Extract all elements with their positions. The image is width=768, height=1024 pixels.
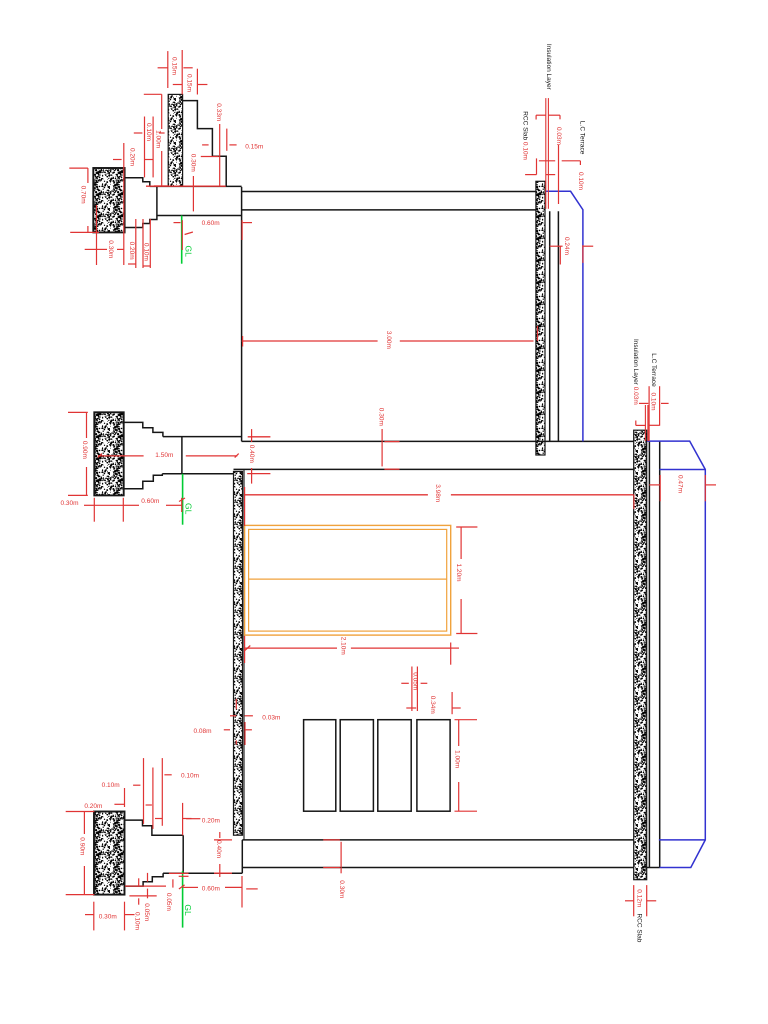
svg-text:0.60m: 0.60m — [202, 886, 220, 893]
svg-text:0.03m: 0.03m — [262, 714, 280, 721]
svg-text:3.00m: 3.00m — [385, 331, 392, 349]
svg-text:0.30m: 0.30m — [99, 914, 117, 921]
svg-text:GL: GL — [183, 904, 193, 916]
svg-text:0.10m: 0.10m — [650, 393, 657, 411]
svg-text:0.20m: 0.20m — [129, 148, 136, 166]
svg-text:0.10m: 0.10m — [145, 123, 152, 141]
svg-text:1.00m: 1.00m — [454, 750, 461, 768]
svg-text:0.24m: 0.24m — [563, 237, 570, 255]
svg-text:0.40m: 0.40m — [248, 445, 255, 463]
svg-text:RCC Slab: RCC Slab — [635, 914, 642, 943]
svg-text:0.47m: 0.47m — [677, 475, 684, 493]
svg-text:0.20m: 0.20m — [84, 803, 102, 810]
svg-text:0.05m: 0.05m — [165, 893, 172, 911]
svg-text:1.00m: 1.00m — [154, 130, 161, 148]
svg-text:0.30m: 0.30m — [190, 154, 197, 172]
svg-text:0.40m: 0.40m — [215, 840, 222, 858]
svg-text:0.34m: 0.34m — [429, 696, 436, 714]
svg-text:0.30m: 0.30m — [61, 500, 79, 507]
svg-text:0.30m: 0.30m — [338, 880, 345, 898]
svg-text:0.08m: 0.08m — [194, 728, 212, 735]
svg-text:0.90m: 0.90m — [81, 441, 88, 459]
svg-text:L.C Terrace: L.C Terrace — [650, 353, 657, 387]
svg-text:0.60m: 0.60m — [141, 498, 159, 505]
svg-text:0.60m: 0.60m — [202, 220, 220, 227]
svg-text:1.20m: 1.20m — [455, 564, 462, 582]
svg-text:GL: GL — [183, 503, 193, 515]
svg-text:Insulation Layer 0.03m: Insulation Layer 0.03m — [632, 339, 639, 405]
svg-text:0.30m: 0.30m — [107, 240, 114, 258]
svg-text:0.70m: 0.70m — [79, 186, 86, 204]
svg-text:0.03m: 0.03m — [555, 127, 562, 145]
svg-text:L.C Terrace: L.C Terrace — [579, 121, 586, 155]
svg-text:0.15m: 0.15m — [171, 57, 178, 75]
svg-text:0.30m: 0.30m — [377, 408, 384, 426]
svg-text:1.50m: 1.50m — [155, 452, 173, 459]
svg-text:0.15m: 0.15m — [185, 74, 192, 92]
svg-text:0.05m: 0.05m — [143, 903, 150, 921]
svg-text:0.12m: 0.12m — [635, 889, 642, 907]
svg-text:0.90m: 0.90m — [79, 837, 86, 855]
svg-text:3.98m: 3.98m — [434, 484, 441, 502]
svg-text:0.05m: 0.05m — [411, 672, 418, 690]
svg-text:0.33m: 0.33m — [215, 103, 222, 121]
svg-text:0.10m: 0.10m — [577, 172, 584, 190]
svg-text:0.10m: 0.10m — [102, 782, 120, 789]
svg-text:Insulation Layer: Insulation Layer — [545, 44, 552, 91]
svg-text:RCC Slab 0.10m: RCC Slab 0.10m — [522, 111, 529, 160]
svg-text:2.10m: 2.10m — [340, 637, 347, 655]
svg-text:0.20m: 0.20m — [128, 242, 135, 260]
svg-text:0.15m: 0.15m — [245, 143, 263, 150]
svg-text:0.10m: 0.10m — [181, 773, 199, 780]
svg-text:0.20m: 0.20m — [202, 818, 220, 825]
svg-text:GL: GL — [184, 246, 194, 258]
